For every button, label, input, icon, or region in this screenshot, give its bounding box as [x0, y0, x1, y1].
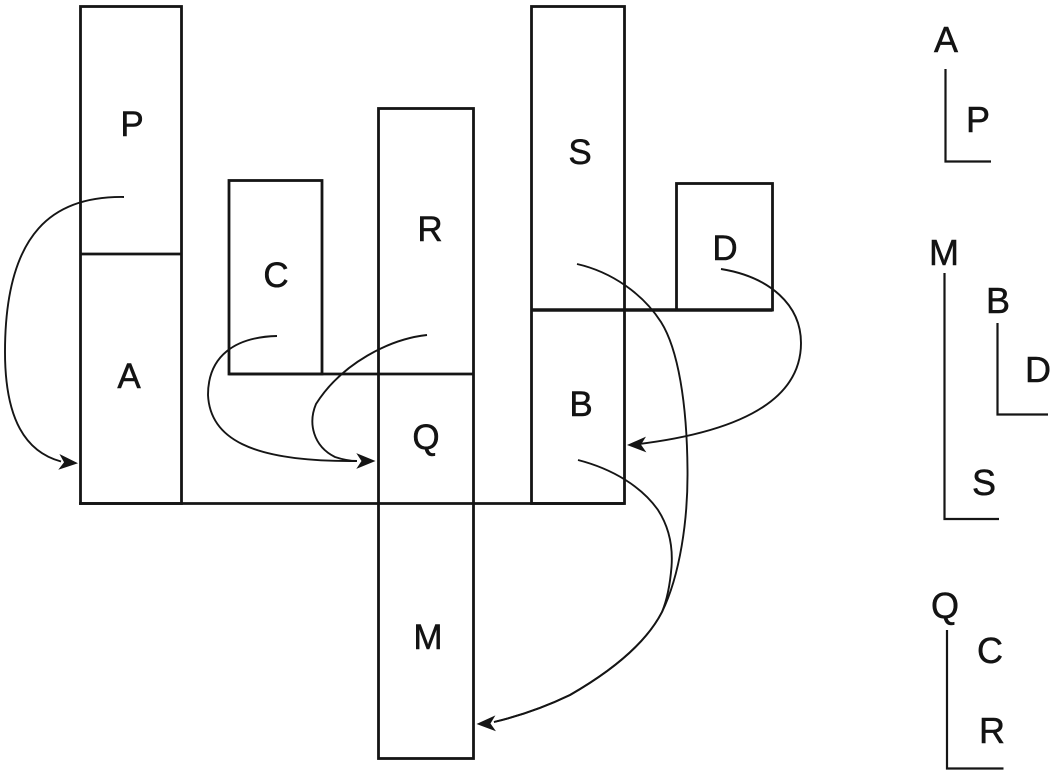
- svg-text:R: R: [417, 210, 442, 249]
- svg-text:Q: Q: [412, 418, 439, 457]
- svg-text:C: C: [263, 256, 288, 295]
- svg-text:A: A: [117, 357, 141, 396]
- svg-text:P: P: [966, 99, 990, 140]
- svg-text:M: M: [929, 232, 959, 273]
- svg-text:D: D: [1025, 349, 1051, 390]
- svg-text:C: C: [977, 630, 1003, 671]
- svg-text:S: S: [972, 462, 996, 503]
- svg-text:S: S: [568, 133, 591, 172]
- svg-text:M: M: [413, 618, 442, 657]
- svg-text:A: A: [934, 19, 958, 60]
- svg-text:R: R: [979, 710, 1005, 751]
- svg-text:D: D: [712, 229, 737, 268]
- svg-text:Q: Q: [931, 585, 959, 626]
- svg-text:B: B: [986, 280, 1010, 321]
- svg-text:P: P: [120, 105, 143, 144]
- svg-text:B: B: [569, 385, 592, 424]
